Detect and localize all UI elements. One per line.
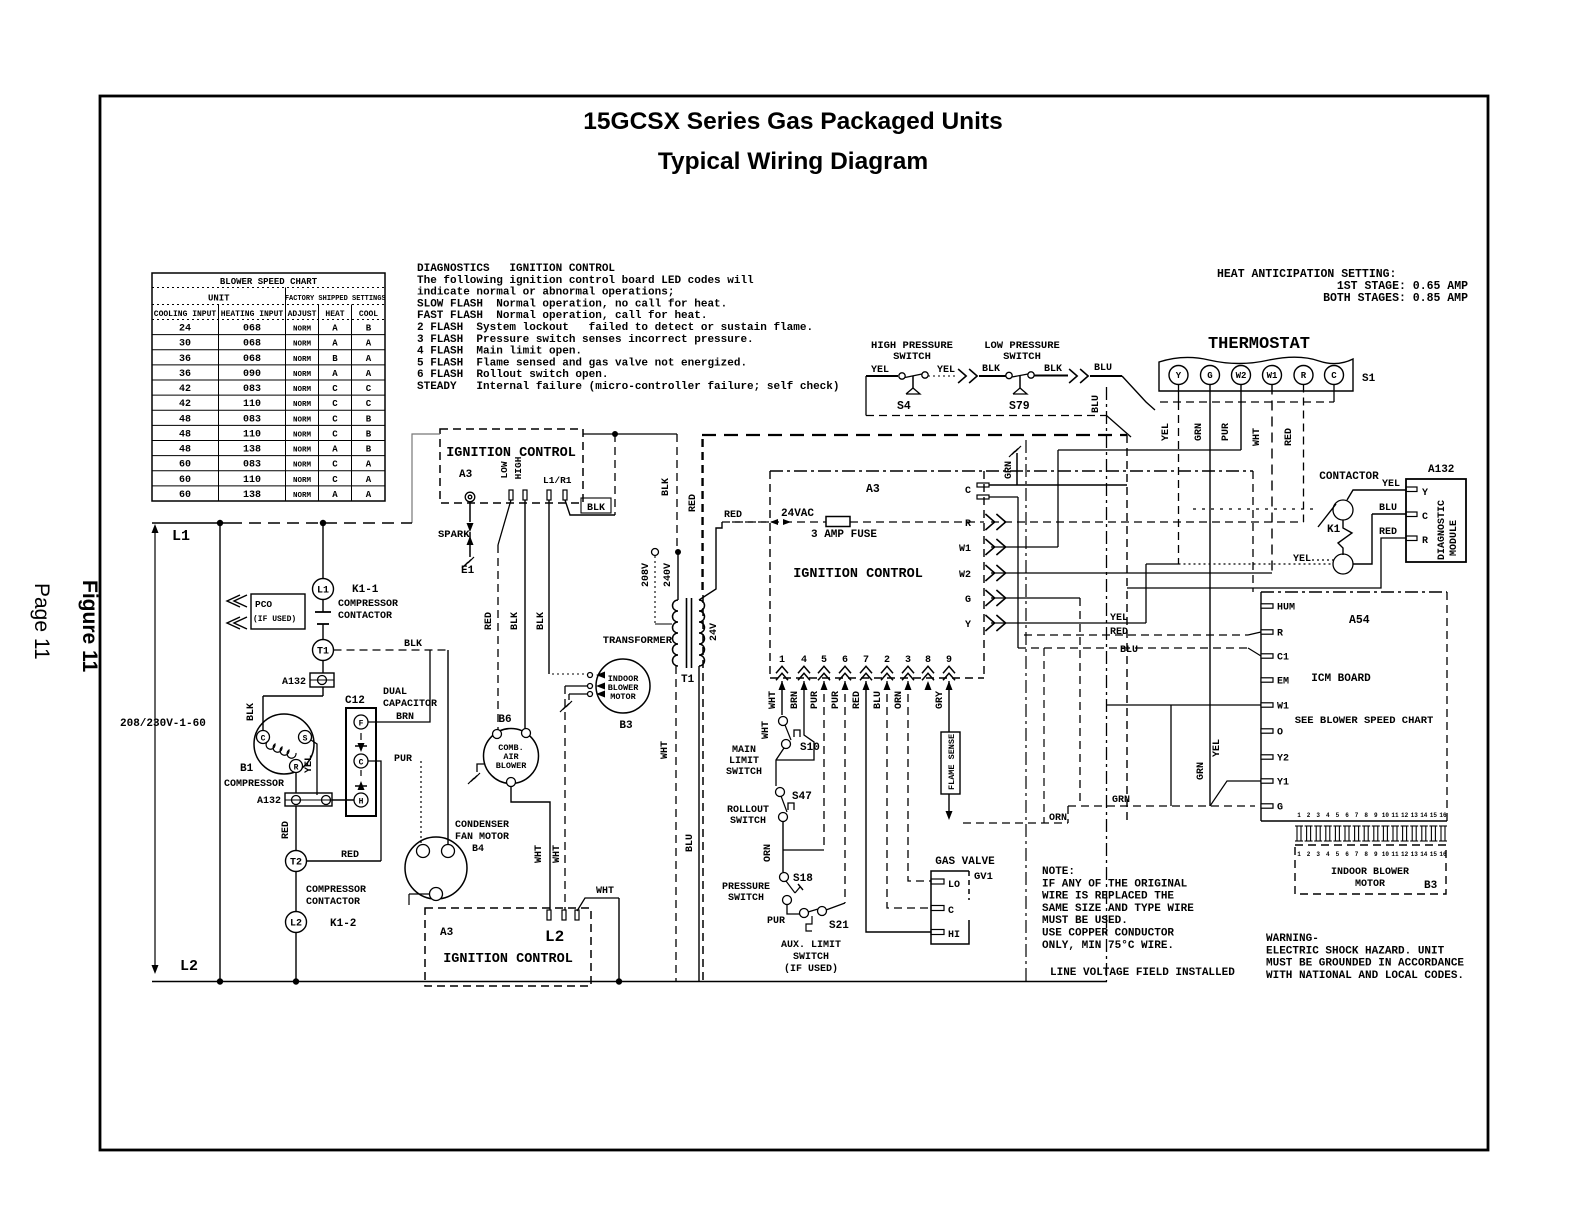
svg-text:2 FLASH System lockout fail: 2 FLASH System lockout failed to detect …	[417, 322, 813, 334]
svg-text:R: R	[1277, 629, 1283, 640]
svg-text:B: B	[366, 429, 372, 439]
svg-text:ORN: ORN	[894, 691, 905, 709]
svg-text:9: 9	[1374, 812, 1378, 819]
svg-text:BLK: BLK	[661, 478, 672, 496]
svg-text:RED: RED	[1284, 428, 1295, 446]
svg-text:indicate normal or abnormal op: indicate normal or abnormal operations;	[417, 287, 674, 299]
svg-text:G: G	[1277, 803, 1283, 814]
svg-text:WHT: WHT	[596, 886, 614, 897]
svg-text:K1: K1	[1327, 524, 1341, 536]
svg-text:W2: W2	[959, 570, 971, 581]
svg-text:C: C	[965, 486, 971, 497]
svg-text:BOTH STAGES: 0.85 AMP: BOTH STAGES: 0.85 AMP	[1323, 292, 1468, 305]
svg-text:MODULE: MODULE	[1449, 520, 1460, 556]
svg-text:NORM: NORM	[293, 462, 312, 470]
svg-text:Typical Wiring Diagram: Typical Wiring Diagram	[658, 148, 928, 175]
svg-text:PUR: PUR	[767, 916, 785, 927]
svg-text:T1: T1	[681, 674, 695, 686]
svg-text:HEATING INPUT: HEATING INPUT	[221, 310, 284, 319]
svg-text:K1-1: K1-1	[352, 584, 379, 596]
svg-text:BLK: BLK	[510, 612, 521, 630]
svg-text:3: 3	[1316, 851, 1320, 858]
svg-text:110: 110	[243, 475, 261, 486]
svg-text:4: 4	[801, 655, 807, 666]
svg-text:NOTE:: NOTE:	[1042, 866, 1075, 878]
svg-text:15GCSX Series Gas Packaged Uni: 15GCSX Series Gas Packaged Units	[583, 108, 1002, 135]
svg-text:14: 14	[1420, 812, 1428, 819]
svg-text:SWITCH: SWITCH	[728, 893, 764, 904]
svg-text:CAPACITOR: CAPACITOR	[383, 699, 437, 710]
svg-text:NORM: NORM	[293, 401, 312, 409]
svg-text:068: 068	[243, 354, 261, 365]
svg-text:A: A	[332, 490, 338, 500]
svg-text:138: 138	[243, 445, 261, 456]
svg-text:48: 48	[179, 429, 191, 440]
svg-text:EM: EM	[1277, 677, 1289, 688]
svg-text:C: C	[332, 460, 338, 470]
svg-text:11: 11	[1391, 812, 1399, 819]
svg-text:USE COPPER CONDUCTOR: USE COPPER CONDUCTOR	[1042, 928, 1174, 940]
svg-text:110: 110	[243, 399, 261, 410]
svg-text:BLK: BLK	[1044, 364, 1062, 375]
svg-text:A: A	[366, 460, 372, 470]
svg-text:BLK: BLK	[587, 503, 605, 514]
svg-text:ADJUST: ADJUST	[288, 310, 317, 319]
svg-text:B: B	[366, 445, 372, 455]
svg-text:090: 090	[243, 369, 261, 380]
svg-text:S4: S4	[897, 400, 911, 413]
svg-text:PUR: PUR	[831, 691, 842, 709]
svg-text:PUR: PUR	[394, 754, 412, 765]
svg-text:E1: E1	[461, 565, 475, 577]
svg-text:DUAL: DUAL	[383, 687, 407, 698]
svg-text:G: G	[965, 595, 971, 606]
svg-text:NORM: NORM	[293, 356, 312, 364]
svg-text:MUST BE GROUNDED IN ACCORDANCE: MUST BE GROUNDED IN ACCORDANCE	[1266, 958, 1464, 970]
svg-text:9: 9	[946, 655, 952, 666]
svg-text:Page 11: Page 11	[30, 583, 53, 660]
svg-text:LOW: LOW	[499, 461, 510, 478]
svg-text:CONTACTOR: CONTACTOR	[306, 897, 360, 908]
svg-text:Y2: Y2	[1277, 754, 1289, 765]
svg-text:COOL: COOL	[359, 310, 378, 319]
svg-text:DIAGNOSTICS IGNITION CONTROL: DIAGNOSTICS IGNITION CONTROL	[417, 263, 615, 275]
svg-text:5: 5	[1336, 851, 1340, 858]
svg-text:HUM: HUM	[1277, 603, 1295, 614]
svg-text:R: R	[294, 764, 299, 773]
svg-text:A54: A54	[1349, 614, 1370, 627]
svg-text:IGNITION CONTROL: IGNITION CONTROL	[446, 446, 576, 461]
svg-text:COMPRESSOR: COMPRESSOR	[306, 885, 366, 896]
svg-text:5: 5	[1336, 812, 1340, 819]
svg-text:36: 36	[179, 369, 191, 380]
svg-text:COMPRESSOR: COMPRESSOR	[338, 599, 398, 610]
svg-text:A: A	[366, 490, 372, 500]
svg-text:BLU: BLU	[1379, 503, 1397, 514]
svg-text:7: 7	[863, 655, 869, 666]
svg-text:NORM: NORM	[293, 492, 312, 500]
svg-text:ROLLOUT: ROLLOUT	[727, 805, 769, 816]
svg-text:7: 7	[1355, 851, 1359, 858]
svg-text:NORM: NORM	[293, 326, 312, 334]
svg-text:1: 1	[1297, 851, 1301, 858]
svg-text:BLK: BLK	[404, 639, 422, 650]
svg-text:SWITCH: SWITCH	[726, 767, 762, 778]
svg-text:C: C	[332, 414, 338, 424]
svg-text:LIMIT: LIMIT	[729, 756, 759, 767]
svg-text:ONLY, MIN 75°C WIRE.: ONLY, MIN 75°C WIRE.	[1042, 940, 1174, 952]
svg-text:W2: W2	[1236, 371, 1247, 381]
svg-text:S: S	[303, 735, 308, 744]
svg-text:GRN: GRN	[1004, 461, 1015, 479]
svg-text:083: 083	[243, 460, 261, 471]
svg-text:A132: A132	[282, 677, 306, 688]
svg-text:6: 6	[1345, 851, 1349, 858]
svg-text:THERMOSTAT: THERMOSTAT	[1208, 335, 1310, 354]
svg-text:S47: S47	[792, 791, 812, 803]
svg-text:C: C	[332, 384, 338, 394]
svg-text:3 FLASH Pressure switch sense: 3 FLASH Pressure switch senses incorrect…	[417, 334, 754, 346]
svg-text:IGNITION CONTROL: IGNITION CONTROL	[443, 952, 573, 967]
svg-text:B: B	[332, 354, 338, 364]
svg-text:4: 4	[1326, 851, 1330, 858]
svg-text:WHT: WHT	[768, 691, 779, 709]
svg-text:B1: B1	[240, 763, 254, 775]
svg-text:C: C	[1331, 371, 1337, 381]
svg-text:BLK: BLK	[536, 612, 547, 630]
svg-text:A: A	[332, 445, 338, 455]
svg-text:W1: W1	[1267, 371, 1278, 381]
svg-text:SPARK: SPARK	[438, 529, 470, 541]
svg-text:SWITCH: SWITCH	[893, 351, 931, 363]
svg-text:60: 60	[179, 460, 191, 471]
svg-text:13: 13	[1411, 851, 1419, 858]
svg-text:208/230V-1-60: 208/230V-1-60	[120, 718, 206, 730]
svg-text:F: F	[359, 720, 364, 729]
svg-text:T2: T2	[290, 858, 302, 869]
svg-text:6: 6	[1345, 812, 1349, 819]
svg-text:Y1: Y1	[1277, 778, 1289, 789]
svg-text:SAME SIZE AND TYPE WIRE: SAME SIZE AND TYPE WIRE	[1042, 903, 1194, 915]
svg-text:TRANSFORMER: TRANSFORMER	[603, 635, 673, 647]
svg-text:138: 138	[243, 490, 261, 501]
svg-text:UNIT: UNIT	[208, 294, 230, 304]
svg-text:14: 14	[1420, 851, 1428, 858]
svg-text:BLK: BLK	[982, 364, 1000, 375]
svg-text:A132: A132	[1428, 464, 1454, 476]
svg-text:2: 2	[884, 655, 890, 666]
svg-text:NORM: NORM	[293, 431, 312, 439]
svg-text:GV1: GV1	[974, 871, 993, 883]
svg-text:10: 10	[1382, 851, 1390, 858]
svg-text:C12: C12	[345, 695, 365, 707]
svg-text:BLOWER: BLOWER	[496, 761, 528, 771]
svg-text:5: 5	[821, 655, 827, 666]
svg-text:C1: C1	[1277, 653, 1289, 664]
svg-text:ORN: ORN	[1049, 813, 1067, 824]
svg-text:WHT: WHT	[660, 741, 671, 759]
svg-text:24V: 24V	[709, 623, 720, 641]
svg-text:208V: 208V	[641, 563, 652, 587]
svg-text:NORM: NORM	[293, 477, 312, 485]
svg-text:YEL: YEL	[1161, 423, 1172, 441]
svg-text:C: C	[261, 735, 266, 744]
svg-text:WHT: WHT	[761, 721, 772, 739]
svg-text:HEAT: HEAT	[325, 310, 344, 319]
svg-text:NORM: NORM	[293, 341, 312, 349]
svg-text:GAS VALVE: GAS VALVE	[935, 856, 995, 868]
svg-text:A: A	[332, 324, 338, 334]
svg-text:B4: B4	[472, 844, 484, 855]
svg-text:B6: B6	[498, 714, 511, 726]
svg-text:L2: L2	[545, 928, 564, 946]
svg-text:B: B	[366, 414, 372, 424]
svg-text:FAN MOTOR: FAN MOTOR	[455, 832, 509, 843]
svg-text:The following ignition control: The following ignition control board LED…	[417, 275, 754, 287]
svg-text:S1: S1	[1362, 373, 1376, 385]
svg-text:15: 15	[1430, 812, 1438, 819]
svg-text:7: 7	[1355, 812, 1359, 819]
svg-text:DIAGNOSTIC: DIAGNOSTIC	[1437, 500, 1448, 560]
svg-text:WARNING-: WARNING-	[1266, 933, 1319, 945]
svg-text:O: O	[1277, 728, 1283, 739]
svg-text:S10: S10	[800, 742, 820, 754]
svg-text:A3: A3	[459, 469, 473, 481]
svg-text:8: 8	[925, 655, 931, 666]
svg-text:T1: T1	[317, 647, 329, 658]
svg-text:YEL: YEL	[1110, 613, 1128, 624]
svg-text:RED: RED	[724, 510, 742, 521]
svg-text:Figure 11: Figure 11	[78, 580, 101, 673]
svg-text:RED: RED	[484, 612, 495, 630]
svg-text:K1-2: K1-2	[330, 918, 356, 930]
svg-text:48: 48	[179, 445, 191, 456]
svg-text:COOLING INPUT: COOLING INPUT	[154, 310, 217, 319]
svg-text:R: R	[1422, 536, 1428, 547]
svg-text:SEE BLOWER SPEED CHART: SEE BLOWER SPEED CHART	[1295, 715, 1434, 727]
svg-text:GRN: GRN	[1196, 762, 1207, 780]
svg-text:AUX. LIMIT: AUX. LIMIT	[781, 940, 841, 951]
svg-text:BLU: BLU	[1094, 363, 1112, 374]
svg-text:YEL: YEL	[1382, 479, 1400, 490]
svg-text:48: 48	[179, 414, 191, 425]
svg-text:8: 8	[1364, 851, 1368, 858]
svg-text:SLOW FLASH Normal operation,: SLOW FLASH Normal operation, no call for…	[417, 298, 727, 310]
svg-text:BLU: BLU	[1091, 395, 1102, 413]
svg-text:NORM: NORM	[293, 371, 312, 379]
svg-text:C: C	[332, 429, 338, 439]
svg-text:R: R	[965, 519, 971, 530]
svg-text:NORM: NORM	[293, 447, 312, 455]
svg-text:B3: B3	[1424, 880, 1438, 892]
svg-text:3: 3	[1316, 812, 1320, 819]
svg-text:BRN: BRN	[790, 691, 801, 709]
svg-text:L2: L2	[180, 958, 198, 975]
svg-text:BLK: BLK	[246, 703, 257, 721]
svg-text:YEL: YEL	[1293, 554, 1311, 565]
svg-text:13: 13	[1411, 812, 1419, 819]
svg-text:WIRE IS REPLACED THE: WIRE IS REPLACED THE	[1042, 891, 1174, 903]
svg-text:1: 1	[1297, 812, 1301, 819]
svg-text:S21: S21	[829, 920, 849, 932]
svg-text:S79: S79	[1009, 400, 1030, 413]
svg-text:A: A	[366, 339, 372, 349]
svg-text:8: 8	[1364, 812, 1368, 819]
svg-text:RED: RED	[1379, 527, 1397, 538]
svg-text:CONDENSER: CONDENSER	[455, 820, 509, 831]
svg-text:Y: Y	[965, 620, 971, 631]
svg-text:C: C	[332, 399, 338, 409]
svg-text:42: 42	[179, 399, 191, 410]
svg-text:C: C	[366, 384, 372, 394]
svg-text:G: G	[1207, 371, 1212, 381]
svg-text:STEADY Internal failure (mic: STEADY Internal failure (micro-controlle…	[417, 381, 839, 393]
svg-text:RED: RED	[281, 821, 292, 839]
svg-text:WHT: WHT	[534, 845, 545, 863]
svg-text:SWITCH: SWITCH	[730, 816, 766, 827]
svg-text:Y: Y	[1422, 488, 1428, 499]
svg-text:5 FLASH Flame sensed and gas: 5 FLASH Flame sensed and gas valve not e…	[417, 357, 747, 369]
svg-text:6: 6	[842, 655, 848, 666]
svg-text:ORN: ORN	[763, 844, 774, 862]
svg-text:PUR: PUR	[1221, 423, 1232, 441]
svg-text:1: 1	[779, 655, 785, 666]
svg-text:FLAME SENSE: FLAME SENSE	[947, 734, 957, 790]
svg-text:YEL: YEL	[1212, 739, 1223, 757]
svg-text:FAST FLASH Normal operation,: FAST FLASH Normal operation, call for he…	[417, 310, 707, 322]
svg-text:W1: W1	[1277, 702, 1289, 713]
svg-text:068: 068	[243, 324, 261, 335]
svg-text:LO: LO	[948, 880, 960, 891]
svg-text:L1: L1	[172, 528, 190, 545]
svg-text:PUR: PUR	[810, 691, 821, 709]
svg-text:WHT: WHT	[552, 845, 563, 863]
svg-text:A3: A3	[440, 927, 454, 939]
svg-text:CONTACTOR: CONTACTOR	[1319, 471, 1379, 483]
svg-text:A: A	[332, 339, 338, 349]
svg-text:083: 083	[243, 414, 261, 425]
svg-text:NORM: NORM	[293, 386, 312, 394]
svg-text:BLU: BLU	[1120, 645, 1138, 656]
svg-text:GRN: GRN	[1112, 795, 1130, 806]
svg-text:36: 36	[179, 354, 191, 365]
svg-text:6 FLASH Rollout switch open.: 6 FLASH Rollout switch open.	[417, 369, 608, 381]
svg-text:2: 2	[1307, 812, 1311, 819]
svg-text:IF ANY OF THE ORIGINAL: IF ANY OF THE ORIGINAL	[1042, 878, 1188, 890]
svg-text:C: C	[948, 906, 954, 917]
svg-text:MOTOR: MOTOR	[1355, 879, 1385, 890]
svg-text:COMPRESSOR: COMPRESSOR	[224, 779, 284, 790]
svg-text:10: 10	[1382, 812, 1390, 819]
svg-text:S18: S18	[793, 873, 813, 885]
svg-text:CONTACTOR: CONTACTOR	[338, 611, 392, 622]
svg-text:16: 16	[1439, 812, 1447, 819]
svg-text:W1: W1	[959, 544, 971, 555]
svg-text:(IF USED): (IF USED)	[784, 963, 838, 975]
svg-text:B: B	[366, 324, 372, 334]
svg-text:RED: RED	[1110, 627, 1128, 638]
svg-text:30: 30	[179, 339, 191, 350]
svg-text:A: A	[366, 475, 372, 485]
svg-text:RED: RED	[852, 691, 863, 709]
svg-text:(IF USED): (IF USED)	[253, 615, 296, 624]
svg-text:LINE VOLTAGE FIELD INSTALLED: LINE VOLTAGE FIELD INSTALLED	[1050, 967, 1235, 979]
svg-text:SWITCH: SWITCH	[1003, 351, 1041, 363]
svg-text:C: C	[1422, 512, 1428, 523]
svg-text:A3: A3	[866, 483, 880, 496]
svg-text:HIGH: HIGH	[513, 456, 524, 479]
svg-text:9: 9	[1374, 851, 1378, 858]
svg-text:C: C	[366, 399, 372, 409]
svg-text:YEL: YEL	[937, 365, 955, 376]
svg-text:GRN: GRN	[1194, 423, 1205, 441]
svg-text:24VAC: 24VAC	[781, 508, 814, 520]
svg-text:BLU: BLU	[873, 691, 884, 709]
svg-text:16: 16	[1439, 851, 1447, 858]
svg-text:3 AMP FUSE: 3 AMP FUSE	[811, 529, 877, 541]
svg-text:60: 60	[179, 475, 191, 486]
svg-text:L2: L2	[290, 919, 302, 930]
svg-text:WITH NATIONAL AND LOCAL CODES.: WITH NATIONAL AND LOCAL CODES.	[1266, 970, 1464, 982]
svg-text:ELECTRIC SHOCK HAZARD. UNIT: ELECTRIC SHOCK HAZARD. UNIT	[1266, 945, 1445, 957]
svg-text:24: 24	[179, 324, 191, 335]
svg-text:12: 12	[1401, 851, 1409, 858]
svg-text:A132: A132	[257, 796, 281, 807]
svg-text:L1: L1	[317, 586, 329, 597]
svg-text:A: A	[366, 354, 372, 364]
svg-text:2: 2	[1307, 851, 1311, 858]
svg-text:42: 42	[179, 384, 191, 395]
svg-text:60: 60	[179, 490, 191, 501]
svg-text:PCO: PCO	[255, 599, 272, 610]
svg-text:GRY: GRY	[935, 691, 946, 709]
svg-text:NORM: NORM	[293, 416, 312, 424]
svg-text:A: A	[332, 369, 338, 379]
svg-text:068: 068	[243, 339, 261, 350]
svg-text:SWITCH: SWITCH	[793, 952, 829, 963]
svg-text:WHT: WHT	[1252, 428, 1263, 446]
svg-text:R: R	[1301, 371, 1307, 381]
svg-text:RED: RED	[341, 850, 359, 861]
svg-text:083: 083	[243, 384, 261, 395]
svg-text:BLU: BLU	[685, 834, 696, 852]
svg-text:3: 3	[905, 655, 911, 666]
svg-text:IGNITION CONTROL: IGNITION CONTROL	[793, 567, 923, 582]
svg-text:4: 4	[1326, 812, 1330, 819]
svg-text:BLOWER SPEED CHART: BLOWER SPEED CHART	[220, 277, 318, 287]
svg-text:FACTORY SHIPPED SETTINGS: FACTORY SHIPPED SETTINGS	[285, 295, 386, 303]
svg-text:MAIN: MAIN	[732, 745, 756, 756]
svg-text:Y: Y	[1176, 371, 1182, 381]
svg-text:240V: 240V	[663, 563, 674, 587]
svg-text:H: H	[359, 798, 364, 807]
svg-text:C: C	[359, 759, 364, 768]
svg-text:HI: HI	[948, 930, 960, 941]
svg-text:110: 110	[243, 429, 261, 440]
svg-text:MUST BE USED.: MUST BE USED.	[1042, 915, 1128, 927]
svg-text:RED: RED	[688, 494, 699, 512]
svg-text:L1/R1: L1/R1	[543, 475, 572, 486]
svg-text:INDOOR BLOWER: INDOOR BLOWER	[1331, 867, 1409, 878]
svg-text:4 FLASH Main limit open.: 4 FLASH Main limit open.	[417, 346, 582, 358]
svg-text:11: 11	[1391, 851, 1399, 858]
svg-text:MOTOR: MOTOR	[610, 692, 636, 702]
svg-text:YEL: YEL	[304, 755, 315, 773]
svg-text:A: A	[366, 369, 372, 379]
svg-text:15: 15	[1430, 851, 1438, 858]
svg-text:B3: B3	[619, 720, 633, 732]
svg-text:C: C	[332, 475, 338, 485]
